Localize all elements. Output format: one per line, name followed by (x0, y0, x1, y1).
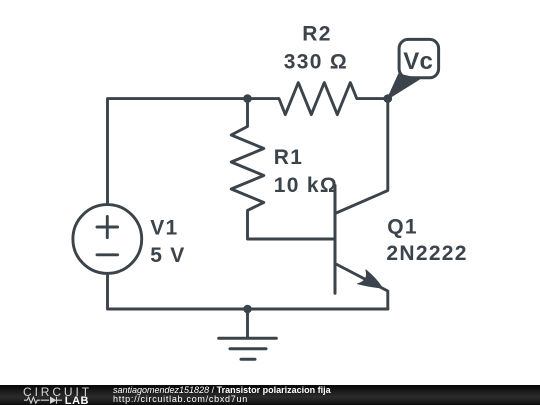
svg-text:10 kΩ: 10 kΩ (274, 174, 338, 197)
svg-text:Q1: Q1 (387, 216, 418, 239)
svg-text:V1: V1 (150, 217, 178, 240)
svg-text:R1: R1 (274, 146, 303, 169)
svg-text:Vc: Vc (403, 48, 433, 75)
svg-text:5 V: 5 V (150, 244, 185, 267)
svg-text:R2: R2 (302, 23, 331, 46)
svg-text:LAB: LAB (65, 395, 89, 405)
svg-text:330 Ω: 330 Ω (284, 50, 348, 73)
svg-text:2N2222: 2N2222 (386, 242, 467, 265)
